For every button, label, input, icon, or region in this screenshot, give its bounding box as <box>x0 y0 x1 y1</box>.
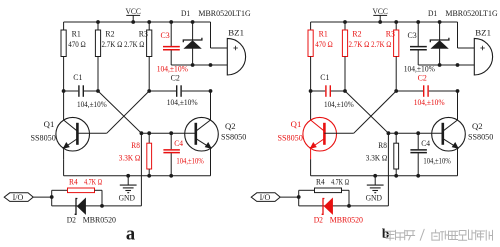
capacitor C3 b <box>417 22 419 46</box>
svg-text:104,±10%: 104,±10% <box>167 97 198 107</box>
wire VCC rail b <box>311 21 458 23</box>
transistor Q1 a <box>56 117 90 151</box>
wire rail corner to BZ1 b <box>457 22 459 48</box>
resistor R8 a <box>148 133 150 143</box>
resistor R8 b <box>395 133 397 143</box>
svg-text:R1: R1 <box>72 28 81 38</box>
transistor Q2 b <box>432 117 466 151</box>
svg-text:C4: C4 <box>421 138 430 148</box>
transistor Q1 b <box>303 117 337 151</box>
svg-text:D1: D1 <box>428 8 437 18</box>
resistor R4 a <box>52 189 68 191</box>
connector I/O a <box>4 193 33 202</box>
svg-text:3.3K Ω: 3.3K Ω <box>119 152 141 162</box>
svg-text:I/O: I/O <box>260 193 271 202</box>
wire I/O lead a <box>33 196 52 198</box>
svg-text:2.7K Ω: 2.7K Ω <box>371 39 391 49</box>
svg-text:BZ1: BZ1 <box>475 28 491 38</box>
svg-text:3.3K Ω: 3.3K Ω <box>366 152 388 162</box>
resistor R1 a <box>63 22 65 30</box>
svg-text:104,±10%: 104,±10% <box>414 97 445 107</box>
svg-text:C2: C2 <box>418 73 427 83</box>
svg-text:R4: R4 <box>316 177 325 187</box>
wire bottom to BZ1 a <box>171 64 227 66</box>
svg-text:470 Ω: 470 Ω <box>68 39 86 49</box>
wire I/O riser a <box>140 133 142 206</box>
svg-text:BZ1: BZ1 <box>228 28 244 38</box>
buzzer BZ1 a <box>227 38 245 75</box>
svg-text:MBR0520LT1G: MBR0520LT1G <box>198 8 250 18</box>
resistor R3 b <box>395 22 397 30</box>
svg-text:2.7K Ω: 2.7K Ω <box>349 39 370 49</box>
svg-text:Q1: Q1 <box>44 119 55 129</box>
transistor Q2 a <box>185 117 219 151</box>
svg-text:4.7K Ω: 4.7K Ω <box>84 177 102 187</box>
wire I/O riser b <box>387 133 389 206</box>
svg-text:R8: R8 <box>131 140 140 150</box>
wire Q2 base line a <box>141 132 195 134</box>
resistor R1 b <box>310 22 312 30</box>
svg-text:D2: D2 <box>314 214 323 224</box>
wire cross C2-Q1base b <box>354 91 396 133</box>
ground GND b <box>374 176 376 185</box>
svg-text:MBR0520LT1G: MBR0520LT1G <box>445 8 497 18</box>
wire VCC rail a <box>64 21 211 23</box>
svg-text:4.7K Ω: 4.7K Ω <box>331 177 349 187</box>
diode D1 b <box>439 22 441 40</box>
capacitor C4 a <box>170 133 172 149</box>
svg-text:GND: GND <box>366 192 382 202</box>
svg-text:MBR0520: MBR0520 <box>83 214 116 224</box>
wire emitter rail a <box>64 175 211 177</box>
svg-text:Q2: Q2 <box>472 121 483 131</box>
svg-text:MBR0520: MBR0520 <box>330 214 363 224</box>
wire emitter rail b <box>311 175 458 177</box>
wire cross C1-Q2base b <box>345 91 388 133</box>
svg-text:D1: D1 <box>181 8 190 18</box>
capacitor C3 a <box>170 22 172 46</box>
watermark 头条号/老马识途单片机 (vector shapes) <box>386 229 493 240</box>
svg-text:R2: R2 <box>105 28 114 38</box>
svg-text:I/O: I/O <box>13 193 24 202</box>
svg-text:470 Ω: 470 Ω <box>315 39 333 49</box>
buzzer BZ1 b <box>474 38 492 75</box>
svg-text:GND: GND <box>119 192 135 202</box>
svg-text:C1: C1 <box>73 72 82 82</box>
svg-text:D2: D2 <box>67 214 76 224</box>
resistor R4 b <box>299 189 315 191</box>
svg-text:SS8050: SS8050 <box>31 133 56 143</box>
capacitor C2 a <box>149 90 176 92</box>
svg-text:R3: R3 <box>139 28 148 38</box>
svg-text:2.7K Ω: 2.7K Ω <box>102 39 123 49</box>
svg-text:b: b <box>382 226 390 241</box>
wire I/O lead b <box>280 196 299 198</box>
svg-text:R3: R3 <box>386 28 395 38</box>
svg-text:104,±10%: 104,±10% <box>423 156 450 166</box>
svg-text:C2: C2 <box>171 73 180 83</box>
capacitor C1 a <box>64 90 79 92</box>
svg-text:R2: R2 <box>352 28 361 38</box>
resistor R2 b <box>344 22 346 30</box>
svg-text:R1: R1 <box>319 28 328 38</box>
svg-text:C3: C3 <box>161 30 170 40</box>
svg-text:R4: R4 <box>69 177 78 187</box>
wire bottom to BZ1 b <box>418 64 474 66</box>
resistor R2 a <box>97 22 99 30</box>
resistor R3 a <box>148 22 150 30</box>
svg-text:104,±10%: 104,±10% <box>324 99 354 109</box>
svg-text:2.7K Ω: 2.7K Ω <box>124 39 144 49</box>
svg-text:104,±10%: 104,±10% <box>77 99 107 109</box>
svg-text:C1: C1 <box>320 72 329 82</box>
svg-text:Q1: Q1 <box>291 119 302 129</box>
connector I/O b <box>251 193 280 202</box>
svg-text:VCC: VCC <box>125 6 141 16</box>
svg-text:a: a <box>126 225 135 245</box>
svg-text:104,±10%: 104,±10% <box>176 156 203 166</box>
svg-text:SS8050: SS8050 <box>468 132 493 142</box>
capacitor C1 b <box>311 90 326 92</box>
svg-text:C4: C4 <box>174 138 183 148</box>
wire rail corner to BZ1 a <box>210 22 212 48</box>
diode D2 b <box>299 205 389 207</box>
capacitor C2 b <box>396 90 423 92</box>
ground GND a <box>127 176 129 185</box>
wire cross C1-Q2base a <box>98 91 141 133</box>
capacitor C4 b <box>417 133 419 149</box>
svg-text:C3: C3 <box>408 30 417 40</box>
svg-text:SS8050: SS8050 <box>221 132 246 142</box>
diode D2 a <box>52 205 142 207</box>
svg-text:SS8050: SS8050 <box>278 133 303 143</box>
svg-text:Q2: Q2 <box>225 121 236 131</box>
wire Q2 base line b <box>388 132 442 134</box>
svg-text:VCC: VCC <box>372 6 388 16</box>
diode D1 a <box>192 22 194 40</box>
svg-text:R8: R8 <box>378 140 387 150</box>
wire cross C2-Q1base a <box>107 91 149 133</box>
